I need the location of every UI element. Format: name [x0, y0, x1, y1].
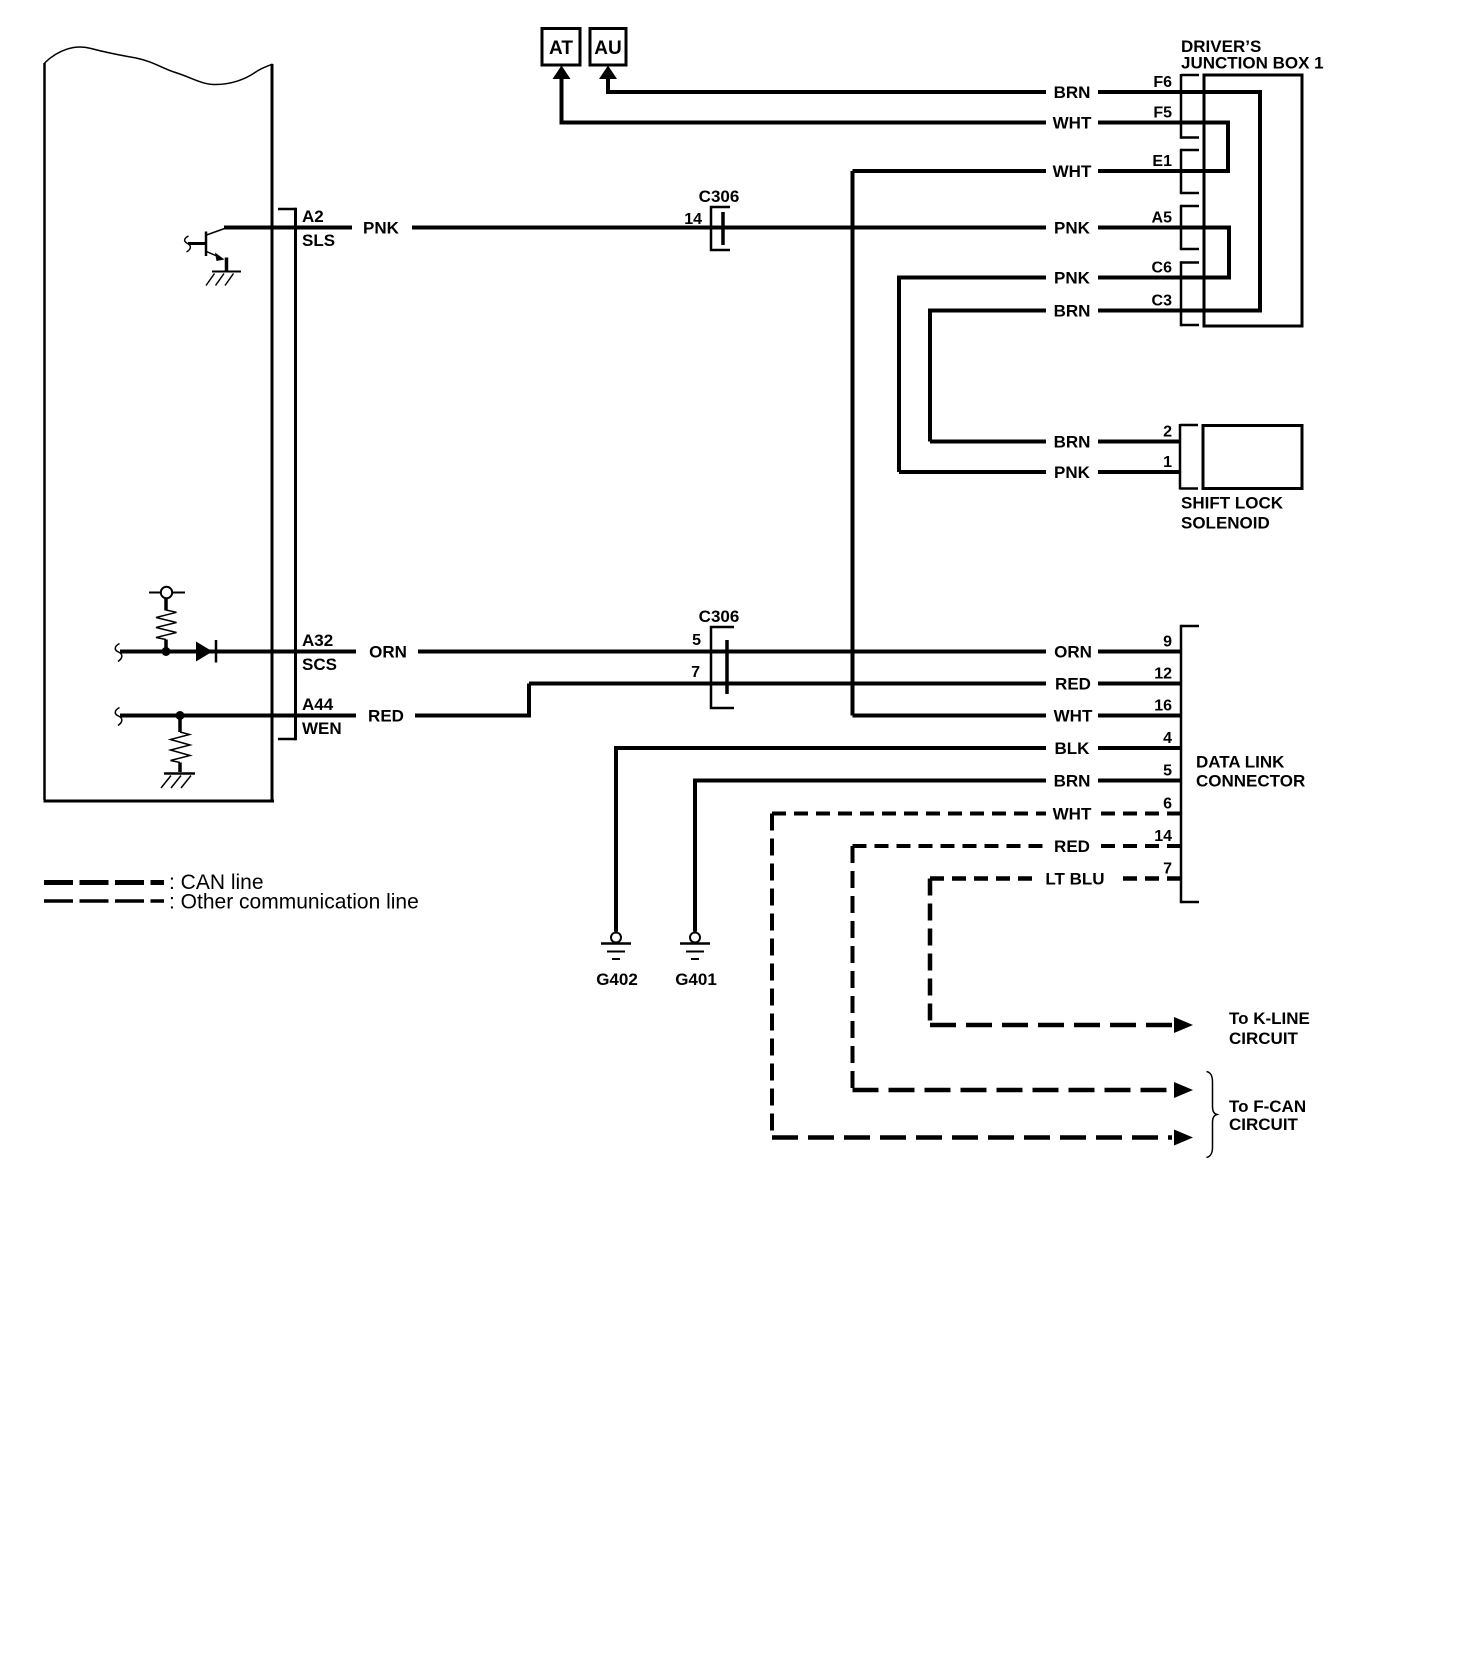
svg-text:SLS: SLS — [302, 231, 335, 250]
brace for F-CAN circuit arrows — [1207, 1072, 1218, 1158]
svg-text:E1: E1 — [1152, 153, 1172, 170]
svg-text:C3: C3 — [1152, 293, 1173, 310]
wire BRN C3 — [930, 309, 1046, 313]
wire PNK vertical (C6 to solenoid pin 1) — [897, 276, 901, 473]
arrow to F-CAN circuit (lower) — [1174, 1130, 1193, 1146]
ECU box (control unit, partial outline with torn wavy top) — [44, 47, 275, 801]
svg-text:C6: C6 — [1152, 260, 1173, 277]
connector bracket A (ECU side connector) — [278, 208, 296, 740]
box AU (to AU circuit) — [590, 29, 626, 66]
connector C306 pins 5 and 7 — [691, 607, 739, 708]
ground G401 (earth) — [675, 933, 717, 990]
shift lock solenoid body — [1203, 426, 1302, 489]
node junction on A44 wire — [176, 711, 185, 720]
node junction on A32 wire — [162, 647, 171, 656]
pin A44 label — [302, 695, 342, 738]
shift lock solenoid connector bracket — [1180, 424, 1198, 490]
svg-text:7: 7 — [691, 664, 700, 681]
wire BLK data link pin 4 — [616, 746, 1046, 750]
svg-text:WHT: WHT — [1053, 162, 1092, 181]
svg-text:: Other communication line: : Other communication line — [169, 891, 419, 914]
junction box internal link A5 to C6 — [1227, 228, 1231, 278]
legend: other communication line sample — [44, 899, 164, 903]
shift lock solenoid caption — [1181, 494, 1284, 533]
connector C306 pin 14 — [684, 187, 739, 250]
box AT (to AT circuit) — [542, 29, 580, 66]
wire PNK pin 1 to connector — [1098, 470, 1181, 474]
svg-text:PNK: PNK — [1054, 219, 1091, 238]
svg-text:7: 7 — [1163, 861, 1172, 878]
junction box connector bracket segment A5 — [1181, 205, 1199, 250]
wire WHT dashed vertical — [770, 814, 774, 1138]
svg-text:BRN: BRN — [1054, 302, 1091, 321]
wire WHT E1 into junction box — [1098, 169, 1230, 173]
wire LT BLU dashed to K-line circuit — [930, 1023, 1172, 1028]
svg-text:G401: G401 — [675, 970, 717, 989]
wire A2 PNK to C306 and A5 (continues into junction box) — [412, 226, 1046, 230]
wire RED to C306 pin 7 and data link pin 12 — [529, 682, 1046, 686]
svg-text:PNK: PNK — [1054, 269, 1091, 288]
wire RED dashed vertical — [851, 846, 855, 1090]
svg-text:C306: C306 — [699, 607, 740, 626]
svg-text:16: 16 — [1154, 698, 1172, 715]
svg-text:BRN: BRN — [1054, 772, 1091, 791]
svg-text:6: 6 — [1163, 796, 1172, 813]
svg-text:WHT: WHT — [1053, 114, 1092, 133]
junction box connector bracket segment E1 — [1181, 149, 1199, 194]
ground (R2, chassis) — [161, 774, 195, 789]
svg-text:PNK: PNK — [1054, 463, 1091, 482]
wire RED dashed into data link connector — [1098, 844, 1181, 848]
power source symbol (pull-up supply, A32 circuit) — [149, 587, 185, 611]
svg-text:A5: A5 — [1152, 210, 1173, 227]
resistor R2 (pull-down on WEN line) — [171, 716, 191, 773]
svg-text:JUNCTION BOX 1: JUNCTION BOX 1 — [1181, 54, 1324, 73]
caption to F-CAN circuit — [1229, 1097, 1306, 1134]
wire A44 WEN (left segment with squiggle break) — [115, 708, 122, 726]
wire BRN F6 into junction box — [1098, 90, 1262, 94]
svg-text:BRN: BRN — [1054, 433, 1091, 452]
svg-text:RED: RED — [1054, 837, 1090, 856]
junction box connector bracket segment F6-F5 — [1181, 74, 1199, 139]
svg-text:RED: RED — [1055, 675, 1091, 694]
svg-text:To K-LINE: To K-LINE — [1229, 1009, 1310, 1028]
wire PNK C6 into junction box — [1098, 276, 1231, 280]
ground (transistor emitter, chassis) — [206, 272, 241, 286]
arrow to K-line circuit — [1174, 1017, 1193, 1033]
svg-text:BLK: BLK — [1055, 739, 1091, 758]
svg-text:DATA LINK: DATA LINK — [1196, 753, 1285, 772]
junction box internal link F5 to E1 — [1226, 123, 1230, 172]
pin A2 label — [302, 207, 335, 250]
wire BRN pin 2 to connector — [1098, 440, 1181, 444]
svg-text:RED: RED — [368, 707, 404, 726]
svg-text:CIRCUIT: CIRCUIT — [1229, 1115, 1299, 1134]
wire RED dashed to F-CAN circuit — [853, 1088, 1173, 1093]
svg-text:F5: F5 — [1153, 105, 1172, 122]
svg-text:14: 14 — [684, 211, 702, 228]
wire BRN into data link connector — [1098, 779, 1181, 783]
svg-text:WEN: WEN — [302, 719, 342, 738]
ground G402 (earth) — [596, 933, 638, 990]
wire BRN to F6 — [606, 90, 1046, 94]
svg-text:4: 4 — [1163, 730, 1172, 747]
pin A32 label — [302, 631, 337, 674]
wire BLK into data link connector — [1098, 746, 1181, 750]
wire WHT data link pin 6 (dashed, communication) — [772, 812, 1046, 816]
driver's junction box 1 body — [1204, 75, 1302, 326]
arrow to AU — [599, 66, 617, 95]
svg-text:AT: AT — [549, 38, 573, 59]
wire ORN into data link connector — [1098, 650, 1181, 654]
legend: CAN line sample — [44, 880, 164, 885]
svg-text:SHIFT LOCK: SHIFT LOCK — [1181, 494, 1284, 513]
wire WHT dashed into data link connector — [1098, 812, 1181, 816]
caption to K-line circuit — [1229, 1009, 1310, 1048]
wire LT BLU data link pin 7 (dashed, K-line) — [930, 876, 1036, 881]
svg-text:C306: C306 — [699, 187, 740, 206]
resistor R1 (pull-up on SCS line) — [156, 610, 177, 640]
wire BRN solenoid pin 2 — [930, 440, 1046, 444]
wire BRN vertical to G401 — [693, 779, 697, 932]
wire A2 PNK (left segment) — [224, 226, 352, 230]
svg-text:To F-CAN: To F-CAN — [1229, 1097, 1306, 1116]
wire RED A44 to corner — [415, 714, 531, 718]
svg-text:AU: AU — [594, 38, 621, 59]
wire WHT to F5 — [562, 121, 1047, 125]
wire BRN data link pin 5 — [695, 779, 1046, 783]
svg-text:LT BLU: LT BLU — [1045, 870, 1104, 889]
junction box internal link F6 to C3 — [1258, 92, 1262, 311]
wire RED data link pin 14 (dashed, communication) — [853, 844, 1047, 848]
wire WHT data link pin 16 (horizontal) — [853, 714, 1047, 718]
wire RED into data link connector — [1098, 682, 1181, 686]
svg-text:F6: F6 — [1153, 74, 1172, 91]
data link connector caption — [1196, 753, 1305, 791]
svg-text:WHT: WHT — [1053, 805, 1092, 824]
driver's junction box 1 caption — [1181, 37, 1324, 73]
wire A5 PNK into junction box — [1098, 226, 1231, 230]
svg-text:5: 5 — [1163, 763, 1172, 780]
wire PNK solenoid pin 1 — [899, 470, 1046, 474]
svg-text:SCS: SCS — [302, 655, 337, 674]
svg-text:1: 1 — [1163, 454, 1172, 471]
wire BRN C3 into junction box — [1098, 309, 1262, 313]
svg-text:14: 14 — [1154, 828, 1172, 845]
wire WHT F5 into junction box — [1098, 121, 1230, 125]
svg-text:A32: A32 — [302, 631, 333, 650]
svg-text:9: 9 — [1163, 634, 1172, 651]
svg-text:A2: A2 — [302, 207, 324, 226]
transistor Q1 (inside ECU, output driver for SLS) — [185, 228, 227, 272]
svg-text:BRN: BRN — [1054, 83, 1091, 102]
wire PNK C6 — [899, 276, 1046, 280]
wire WHT into data link connector — [1098, 714, 1181, 718]
svg-text:G402: G402 — [596, 970, 638, 989]
svg-text:SOLENOID: SOLENOID — [1181, 514, 1270, 533]
svg-text:ORN: ORN — [369, 643, 407, 662]
svg-text:CIRCUIT: CIRCUIT — [1229, 1029, 1299, 1048]
svg-text:12: 12 — [1154, 666, 1172, 683]
junction box connector bracket segment C6-C3 — [1181, 261, 1199, 326]
svg-text:A44: A44 — [302, 695, 334, 714]
svg-text:2: 2 — [1163, 424, 1172, 441]
svg-text:WHT: WHT — [1054, 707, 1093, 726]
wire WHT E1 (horizontal) — [853, 169, 1047, 173]
wire A32 SCS (left segment with squiggle break) — [115, 644, 122, 662]
svg-text:5: 5 — [692, 632, 701, 649]
wire LT BLU dashed into data link connector — [1118, 876, 1181, 881]
wire WHT dashed to F-CAN circuit — [772, 1135, 1172, 1140]
data link connector bracket — [1181, 625, 1199, 903]
svg-text:CONNECTOR: CONNECTOR — [1196, 772, 1305, 791]
svg-text:PNK: PNK — [363, 219, 400, 238]
wire ORN to C306 pin 5 and data link pin 9 — [418, 650, 1046, 654]
diode D1 (on SCS line) — [196, 640, 216, 663]
svg-text:ORN: ORN — [1054, 643, 1092, 662]
wire WHT vertical (E1 to data link pin 16) — [851, 171, 855, 716]
wire LT BLU dashed vertical — [928, 879, 933, 1026]
arrow to F-CAN circuit (upper) — [1174, 1082, 1193, 1098]
arrow to AT — [553, 66, 571, 125]
wire BRN vertical (C3 to solenoid pin 2) — [928, 309, 932, 442]
wire BLK vertical to G402 — [614, 746, 618, 932]
wire RED vertical riser — [527, 684, 531, 718]
